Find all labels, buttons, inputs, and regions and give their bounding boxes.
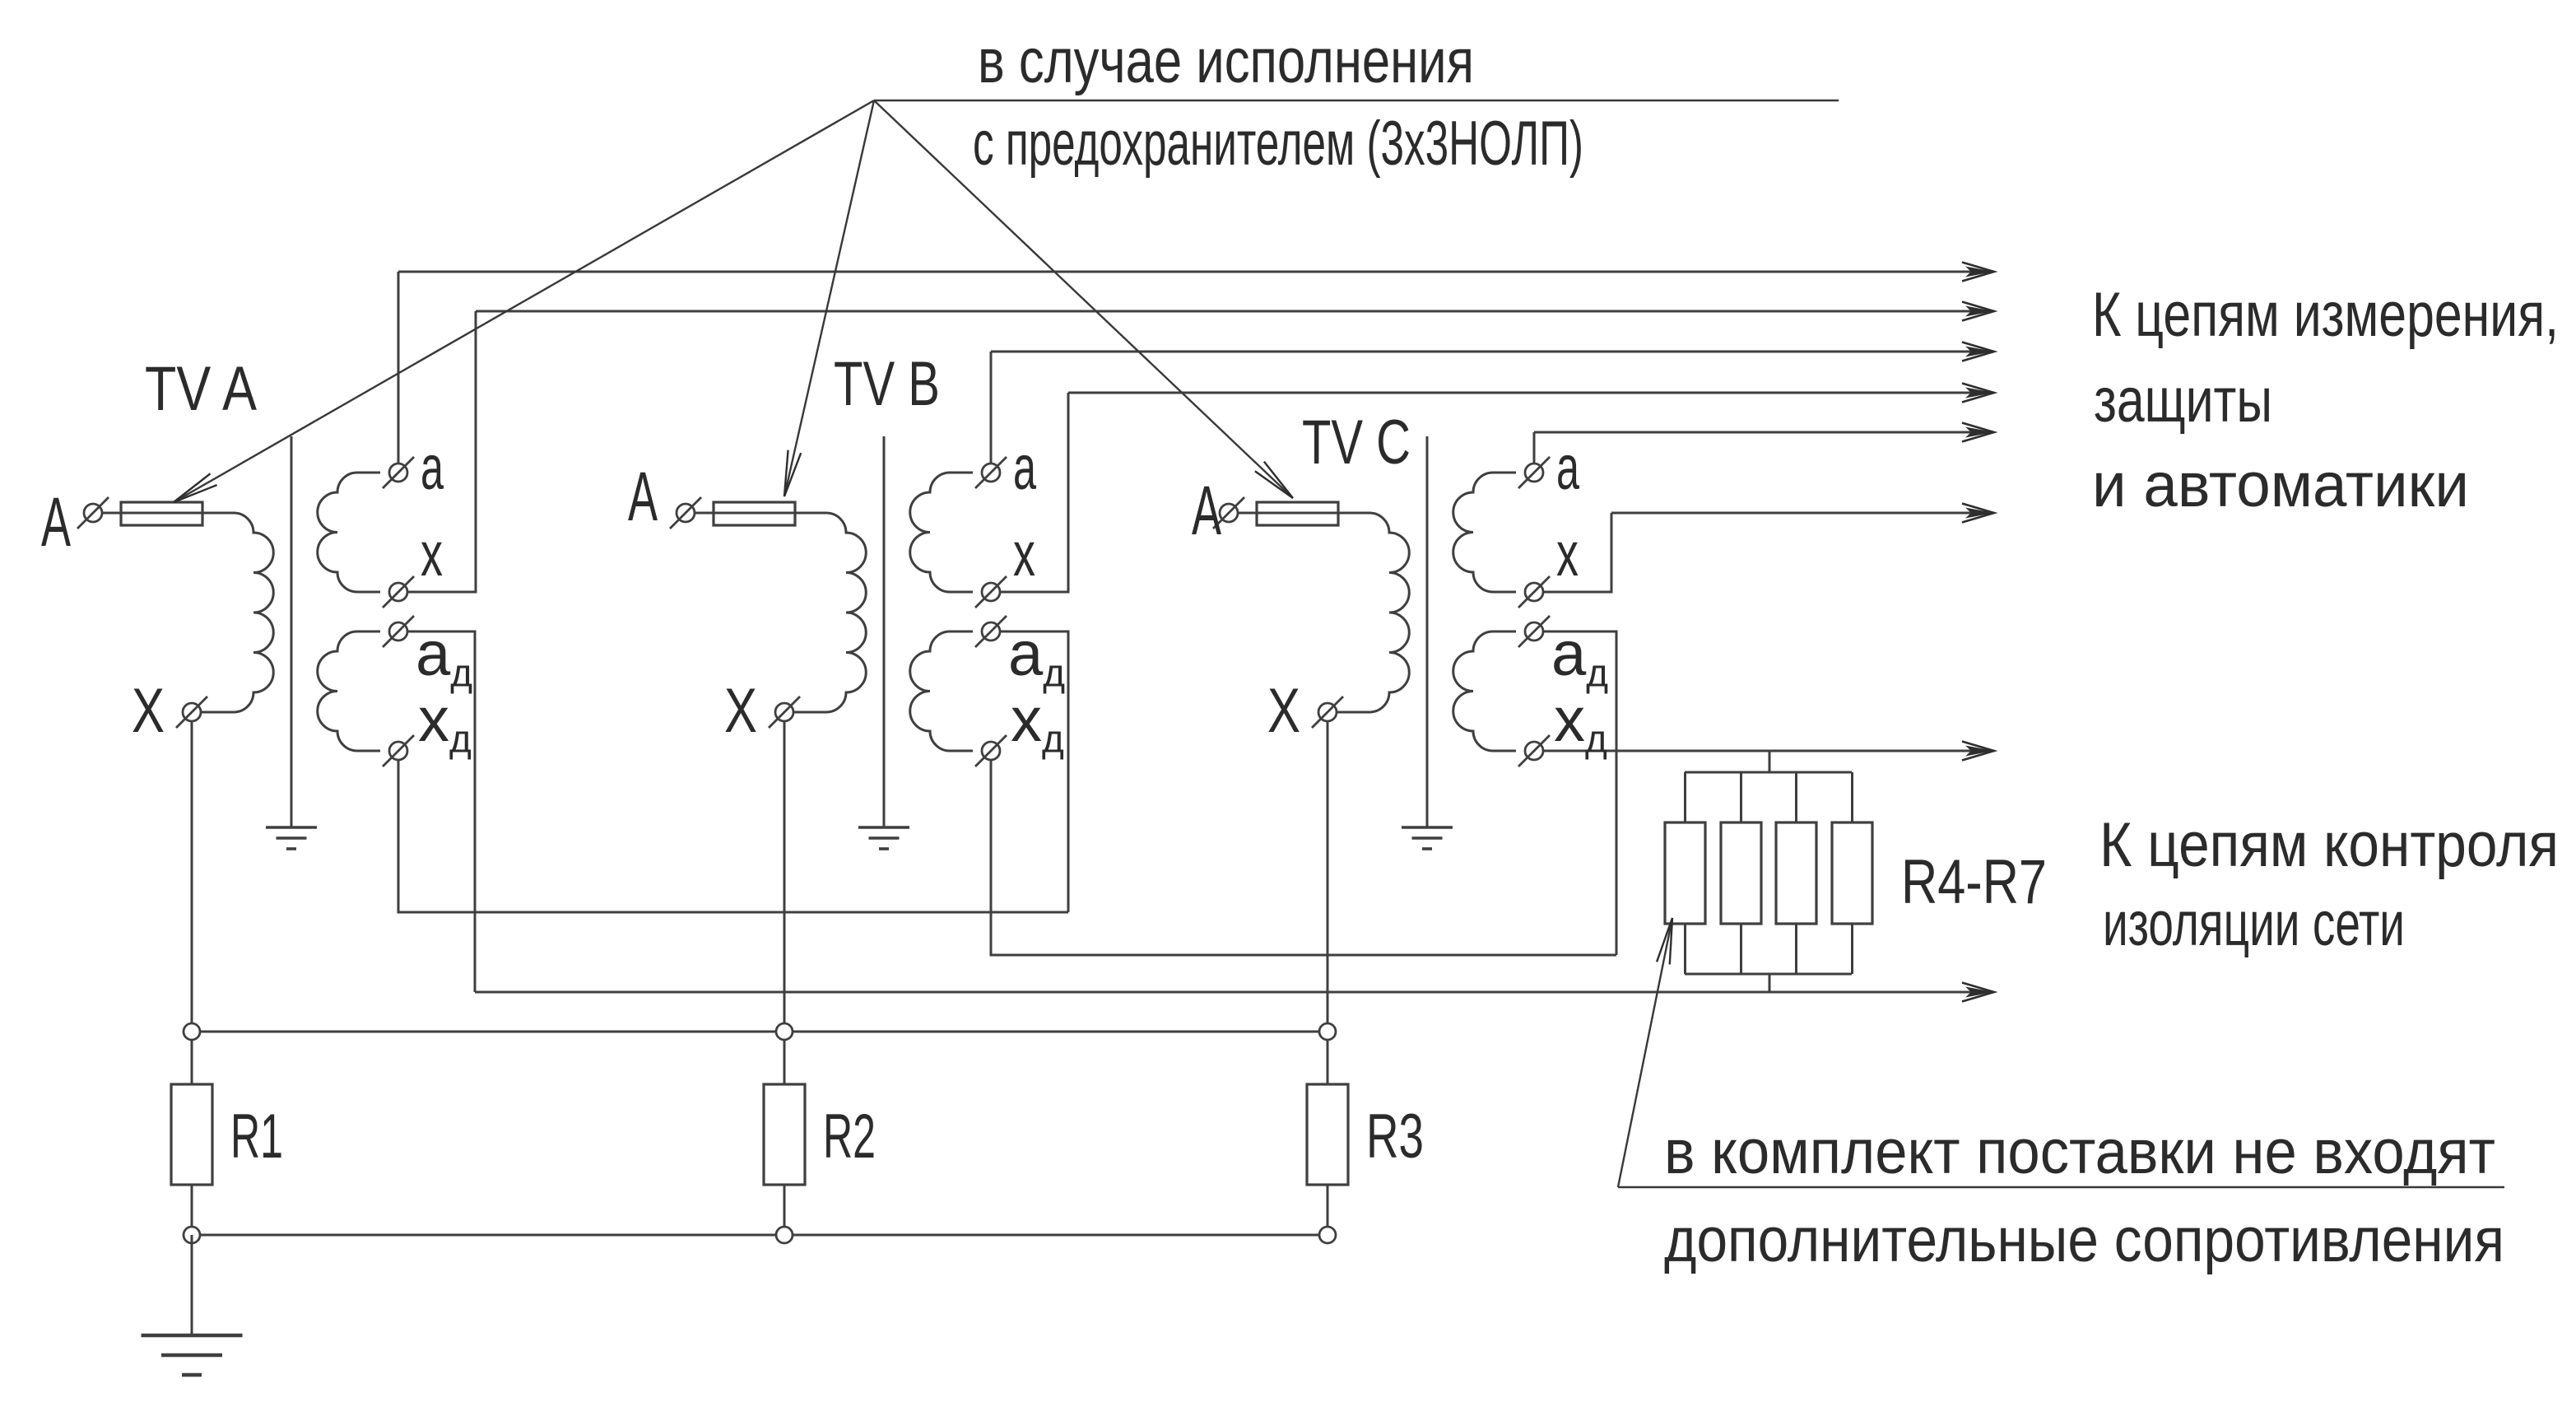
- svg-text:A: A: [628, 458, 658, 535]
- wire TV A terminal ad down: [407, 631, 475, 992]
- wire R5 bottom lead: [1740, 924, 1742, 974]
- terminal A (TV B): [670, 497, 701, 529]
- primary winding of TV A: [102, 513, 273, 712]
- svg-text:в комплект поставки не входят: в комплект поставки не входят: [1664, 1117, 2495, 1187]
- svg-text:X: X: [132, 676, 165, 746]
- svg-text:TV C: TV C: [1302, 408, 1411, 478]
- wire bus 3 (TV B a) to measurement circuits: [991, 351, 1994, 353]
- wire bus resistor bottom (R1-R2-R3): [192, 1234, 1328, 1237]
- svg-text:A: A: [41, 483, 71, 561]
- terminal X (TV C): [1312, 697, 1343, 728]
- svg-text:в случае исполнения: в случае исполнения: [978, 26, 1474, 96]
- wire TV A terminal a up: [398, 272, 400, 464]
- core of TV B: [883, 436, 886, 827]
- wire TV C terminal x to bus 6: [1543, 513, 1611, 592]
- terminal X (TV B): [769, 697, 800, 728]
- core of TV A: [291, 436, 293, 827]
- wire R7 top lead: [1851, 772, 1853, 822]
- svg-text:TV B: TV B: [834, 349, 940, 419]
- callout underline (fuse note): [874, 100, 1839, 101]
- wire TV B terminal x to bus 4: [1000, 393, 1068, 592]
- wire R6 bottom lead: [1795, 924, 1797, 974]
- fuse FUB (TV B): [714, 502, 795, 525]
- svg-text:a: a: [421, 433, 444, 503]
- resistor R7: [1832, 822, 1872, 924]
- terminal x (TV C): [1518, 576, 1550, 608]
- callout underline (supply note): [1618, 1186, 2504, 1188]
- primary winding of TV C: [1238, 513, 1409, 712]
- fuse FUC (TV C): [1257, 502, 1338, 525]
- wire bus 1 (TV A a) to measurement circuits: [398, 271, 1994, 273]
- wire R5 top lead: [1740, 772, 1742, 822]
- wire R6 top lead: [1795, 772, 1797, 822]
- node R1 top junction: [184, 1023, 200, 1040]
- terminal xd (TV C): [1518, 735, 1550, 766]
- resistor R3: [1307, 1084, 1348, 1185]
- terminal xd (TV B): [975, 735, 1007, 766]
- ground (core of TV B): [858, 827, 909, 849]
- wire R3 bottom lead: [1327, 1185, 1329, 1235]
- wire R4-R7 top bus: [1685, 771, 1852, 774]
- svg-text:X: X: [724, 676, 757, 746]
- svg-text:x: x: [1013, 519, 1035, 589]
- wire bus 8 (TV A ad) to insulation control: [475, 991, 1994, 994]
- terminal a (TV B): [975, 457, 1007, 488]
- primary winding of TV B: [695, 513, 866, 712]
- wire TV C terminal ad down: [1543, 631, 1616, 955]
- resistor R4: [1665, 822, 1705, 924]
- terminal a (TV C): [1518, 457, 1550, 488]
- wire TV A terminal xd to TV B ad: [398, 760, 1068, 912]
- secondary winding a-x of TV C: [1453, 473, 1516, 592]
- ground (core of TV A): [266, 827, 317, 849]
- wire TV B terminal ad down: [1000, 631, 1068, 912]
- leader to fuse of TV C: [874, 100, 1293, 498]
- svg-text:R1: R1: [230, 1102, 283, 1172]
- wire TV C terminal a up: [1533, 432, 1536, 464]
- terminal x (TV B): [975, 576, 1007, 608]
- wire TV A terminal x to bus 2: [407, 311, 476, 592]
- svg-text:x: x: [1556, 519, 1579, 589]
- svg-text:изоляции сети: изоляции сети: [2103, 889, 2405, 959]
- wire TV B terminal xd to TV C ad: [991, 760, 1616, 955]
- svg-text:x: x: [421, 519, 443, 589]
- terminal xd (TV A): [383, 735, 414, 766]
- wire R4 top lead: [1684, 772, 1686, 822]
- svg-text:a: a: [1013, 433, 1036, 503]
- resistor block R4-R7: [1665, 751, 1872, 992]
- terminal X (TV A): [176, 697, 207, 728]
- wire bus 2 (TV A x) to measurement circuits: [476, 310, 1994, 313]
- wire bus 4 (TV B x) to measurement circuits: [1068, 392, 1994, 394]
- svg-text:R2: R2: [823, 1102, 876, 1172]
- svg-text:a: a: [1556, 433, 1579, 503]
- leader to fuse of TV A: [174, 100, 874, 502]
- svg-text:К цепям измерения,: К цепям измерения,: [2092, 280, 2559, 350]
- resistor R6: [1776, 822, 1816, 924]
- main earth ground: [142, 1335, 243, 1375]
- wire R1 bottom lead: [191, 1185, 193, 1235]
- wire bus 6 (TV C x) to measurement circuits: [1611, 512, 1994, 515]
- svg-text:дополнительные сопротивления: дополнительные сопротивления: [1664, 1205, 2504, 1275]
- node R2 bottom junction: [776, 1227, 793, 1243]
- wire TV B X down to R2: [783, 722, 786, 1084]
- wire bus 5 (TV C a) to measurement circuits: [1534, 431, 1994, 434]
- wire R4-R7 bottom bus: [1685, 973, 1852, 976]
- terminal ad (TV A): [383, 616, 414, 647]
- leader to fuse of TV B: [784, 100, 874, 496]
- fuse FUA (TV A): [121, 502, 202, 525]
- terminal a (TV A): [383, 457, 414, 488]
- leader to R4 (not supplied note): [1618, 918, 1672, 1187]
- svg-text:A: A: [1192, 472, 1221, 549]
- wire TV B terminal a up: [990, 352, 993, 464]
- svg-text:TV A: TV A: [145, 354, 257, 424]
- wire bus 7 (TV C xd) to insulation control: [1543, 750, 1994, 752]
- terminal ad (TV C): [1518, 616, 1550, 647]
- wire R4 bottom lead: [1684, 924, 1686, 974]
- terminal x (TV A): [383, 576, 414, 608]
- svg-text:R4-R7: R4-R7: [1901, 847, 2047, 917]
- auxiliary winding ad-xd of TV A: [318, 631, 380, 751]
- node R3 top junction: [1319, 1023, 1336, 1040]
- resistor R5: [1721, 822, 1761, 924]
- resistor R2: [764, 1084, 805, 1185]
- core of TV C: [1426, 436, 1429, 827]
- resistor R1: [171, 1084, 212, 1185]
- wire R4-R7 bottom bus to bus 8: [1769, 974, 1771, 992]
- wire R4-R7 top bus to bus 7: [1769, 751, 1771, 772]
- svg-text:R3: R3: [1366, 1102, 1424, 1172]
- secondary winding a-x of TV B: [910, 473, 973, 592]
- node R2 top junction: [776, 1023, 793, 1040]
- terminal A (TV C): [1213, 497, 1244, 529]
- wire TV A X down to R1: [191, 721, 193, 1084]
- wire R7 bottom lead: [1851, 924, 1853, 974]
- ground (core of TV C): [1402, 827, 1453, 849]
- svg-text:с предохранителем (3х3НОЛП): с предохранителем (3х3НОЛП): [973, 109, 1583, 179]
- wire bus resistor top (R1-R2-R3): [192, 1031, 1328, 1033]
- auxiliary winding ad-xd of TV C: [1453, 631, 1516, 751]
- secondary winding a-x of TV A: [318, 473, 380, 592]
- terminal ad (TV B): [975, 616, 1007, 647]
- wire R1 to main earth: [191, 1235, 193, 1335]
- terminal A (TV A): [77, 497, 109, 529]
- auxiliary winding ad-xd of TV B: [910, 631, 973, 751]
- node R3 bottom junction: [1319, 1227, 1336, 1243]
- node R1 bottom junction: [184, 1227, 200, 1243]
- svg-text:защиты: защиты: [2094, 366, 2272, 436]
- wire TV C X down to R3: [1327, 722, 1329, 1084]
- svg-text:X: X: [1267, 676, 1300, 746]
- svg-text:К цепям контроля: К цепям контроля: [2099, 810, 2559, 880]
- svg-text:и автоматики: и автоматики: [2092, 450, 2469, 520]
- wire R2 bottom lead: [783, 1185, 786, 1235]
